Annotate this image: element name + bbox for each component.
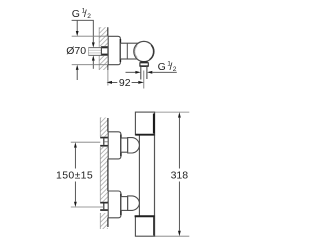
svg-text:G: G [72,8,80,20]
svg-text:150±15: 150±15 [56,169,93,181]
svg-text:G: G [158,61,166,73]
svg-text:318: 318 [171,170,189,182]
svg-text:2: 2 [87,13,91,20]
svg-text:Ø70: Ø70 [66,45,86,57]
svg-text:92: 92 [119,77,131,89]
svg-text:2: 2 [173,66,177,73]
